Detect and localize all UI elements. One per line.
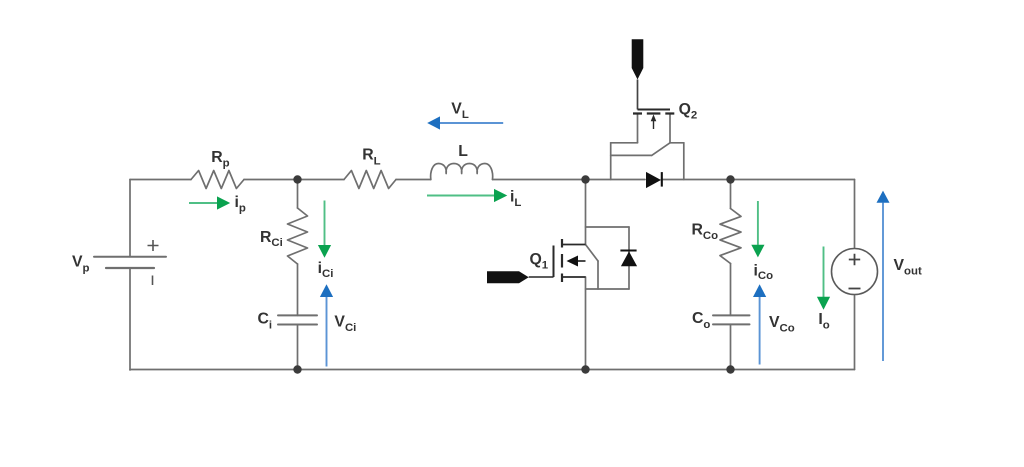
wire Q2 diagonal	[652, 143, 670, 156]
wire Q1 diode vertical	[628, 227, 630, 289]
resistor RCi	[288, 208, 308, 264]
voltage source circle	[832, 249, 878, 295]
node A dot	[293, 175, 301, 183]
current arrow Io	[817, 247, 830, 310]
wire Rp to node A	[244, 179, 344, 181]
wire RL to L	[396, 179, 431, 181]
voltage arrow Vout	[877, 191, 890, 361]
capacitor Co plate top	[713, 314, 750, 316]
node D dot	[293, 365, 301, 373]
resistor RL	[344, 171, 396, 189]
resistor Rp	[191, 171, 244, 189]
transistor Q2 gate terminal	[632, 39, 644, 79]
wire node C to right corner	[731, 179, 855, 181]
wire Q1 mid vertical	[597, 261, 599, 289]
wire node B to Q2 diode	[586, 179, 646, 181]
wire Q2 right lead	[669, 114, 671, 143]
wire Q1 diagonal	[586, 245, 599, 262]
transistor Q2 channel dashes	[633, 112, 674, 114]
transistor Q1 gate terminal	[487, 271, 529, 283]
wire RCi branch top	[297, 180, 299, 209]
inductor L	[431, 164, 493, 180]
wire Q1 source to rail	[585, 277, 587, 370]
wire bottom rail	[130, 369, 855, 371]
transistor Q2 gate lead	[637, 80, 639, 110]
wire left vertical top	[129, 180, 131, 257]
capacitor Co plate bottom	[713, 323, 750, 325]
transistor Q2 body arrow head	[651, 114, 657, 121]
wire L to node B	[493, 179, 586, 181]
voltage source plus sign	[849, 254, 860, 265]
current arrow iL	[427, 189, 507, 202]
wire Q2 right vertical	[683, 143, 685, 180]
current arrow iCo	[751, 201, 764, 257]
wire Q2 diode to node C	[661, 179, 730, 181]
wire RCo to Co	[730, 264, 732, 316]
wire Q1 top horizontal	[586, 226, 630, 228]
wire left vertical bottom	[129, 268, 131, 370]
wire Ci to rail	[297, 325, 299, 370]
wire Q2 left horizontal	[611, 142, 638, 144]
diode D1 triangle	[621, 251, 637, 266]
battery minus sign	[152, 276, 154, 286]
transistor Q2 body arrow line	[653, 120, 655, 129]
transistor Q1 drain lead	[562, 244, 586, 246]
wire Q1 drain vertical	[585, 180, 587, 245]
transistor Q1 body arrow head	[567, 256, 579, 267]
wire RCo branch top	[730, 180, 732, 209]
transistor Q1 channel dashes	[561, 239, 563, 282]
diode D2 cathode bar	[661, 172, 663, 187]
battery Vp plate long	[94, 256, 166, 258]
voltage arrow VCi	[320, 284, 333, 366]
resistor RCo	[720, 209, 741, 264]
diode D1 cathode bar	[620, 249, 636, 251]
current arrow ip	[189, 196, 230, 209]
wire Q2 lower horizontal	[611, 154, 652, 156]
node B dot	[581, 175, 589, 183]
transistor Q1 gate lead	[529, 276, 554, 278]
node F dot	[726, 365, 734, 373]
battery Vp plate short	[106, 267, 154, 269]
wire top left segment	[130, 179, 191, 181]
voltage source minus sign	[849, 288, 861, 290]
node E dot	[581, 365, 589, 373]
capacitor Ci plate bottom	[278, 324, 317, 326]
wire Q2 right horizontal	[670, 142, 684, 144]
wire Q1 bottom horizontal	[586, 288, 630, 290]
transistor Q2 gate bar	[638, 109, 671, 111]
diode D2 triangle	[646, 172, 661, 188]
wire right vertical to source top	[854, 180, 856, 249]
battery plus sign	[148, 240, 159, 251]
capacitor Ci plate top	[278, 314, 317, 316]
transistor Q1 source lead	[562, 276, 586, 278]
wire Q2 left lead	[637, 114, 639, 143]
transistor Q1 gate bar	[553, 246, 555, 278]
node C dot	[726, 175, 734, 183]
transistor Q1 body arrow line	[578, 260, 586, 262]
wire Q2 left vertical	[610, 143, 612, 180]
current arrow iCi	[318, 201, 331, 258]
svg-text:L: L	[458, 143, 468, 160]
wire RCi to Ci	[297, 264, 299, 315]
voltage arrow VL	[427, 116, 503, 129]
wire Co to rail	[730, 324, 732, 369]
voltage arrow VCo	[753, 284, 766, 364]
wire source bottom to rail	[854, 295, 856, 370]
